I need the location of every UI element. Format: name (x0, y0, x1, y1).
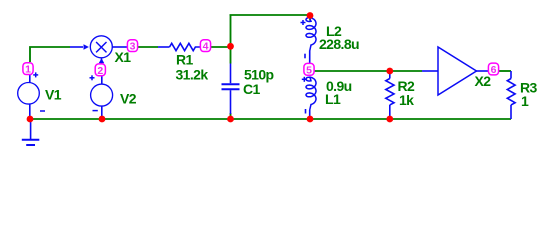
node 2 (95, 64, 105, 77)
svg-text:2: 2 (97, 65, 103, 77)
voltage source V2 (91, 84, 113, 106)
junction V1-ground on bottom rail (27, 116, 34, 123)
svg-text:6: 6 (491, 64, 497, 76)
ground (30, 119, 32, 140)
multiplier X1 (90, 36, 112, 58)
junction R1-C1 node 4 (227, 43, 234, 50)
svg-text:V1: V1 (45, 87, 62, 103)
junction R2 on bottom rail (386, 116, 393, 123)
wire C1 bottom stub (230, 113, 232, 119)
wire top rail (230, 14, 311, 16)
svg-text:228.8u: 228.8u (319, 36, 359, 52)
svg-text:4: 4 (203, 41, 209, 53)
node 6 (488, 63, 498, 76)
wire X2 out to R3 (499, 70, 511, 72)
junction V2 on bottom rail (99, 116, 106, 123)
resistor R3 (510, 71, 512, 79)
svg-text:1: 1 (25, 64, 31, 76)
junction L2 top rail (307, 12, 314, 19)
wire node5 row to X2 (314, 70, 422, 72)
node 4 (200, 40, 210, 53)
junction R2 top on node5 wire (386, 68, 393, 75)
svg-text:1: 1 (521, 93, 529, 109)
resistor R1 (158, 46, 170, 48)
svg-text:1k: 1k (399, 92, 414, 108)
wire bottom rail (30, 118, 511, 120)
svg-text:R1: R1 (176, 52, 194, 68)
buffer X2 (422, 70, 438, 72)
svg-text:31.2k: 31.2k (176, 67, 209, 83)
svg-text:3: 3 (130, 41, 136, 53)
junction C1 on bottom rail (227, 116, 234, 123)
wire riser C1 column (230, 15, 232, 64)
svg-text:5: 5 (306, 64, 312, 76)
node 1 (23, 63, 33, 76)
svg-text:V2: V2 (120, 91, 137, 107)
svg-text:C1: C1 (243, 81, 261, 97)
junction L1 on bottom rail (307, 116, 314, 123)
capacitor C1 (230, 64, 232, 84)
wire node4 to junction (211, 46, 231, 48)
wire node1 riser to X1 (30, 47, 70, 62)
svg-text:X2: X2 (475, 73, 492, 89)
voltage source V1 (18, 83, 40, 105)
node 3 (127, 40, 137, 53)
svg-text:L1: L1 (325, 91, 341, 107)
node 5 (304, 63, 314, 76)
inductor L2 (309, 16, 311, 21)
wire node3 to R1 (138, 46, 158, 48)
resistor R2 (389, 73, 391, 79)
inductor L1 (306, 77, 316, 111)
